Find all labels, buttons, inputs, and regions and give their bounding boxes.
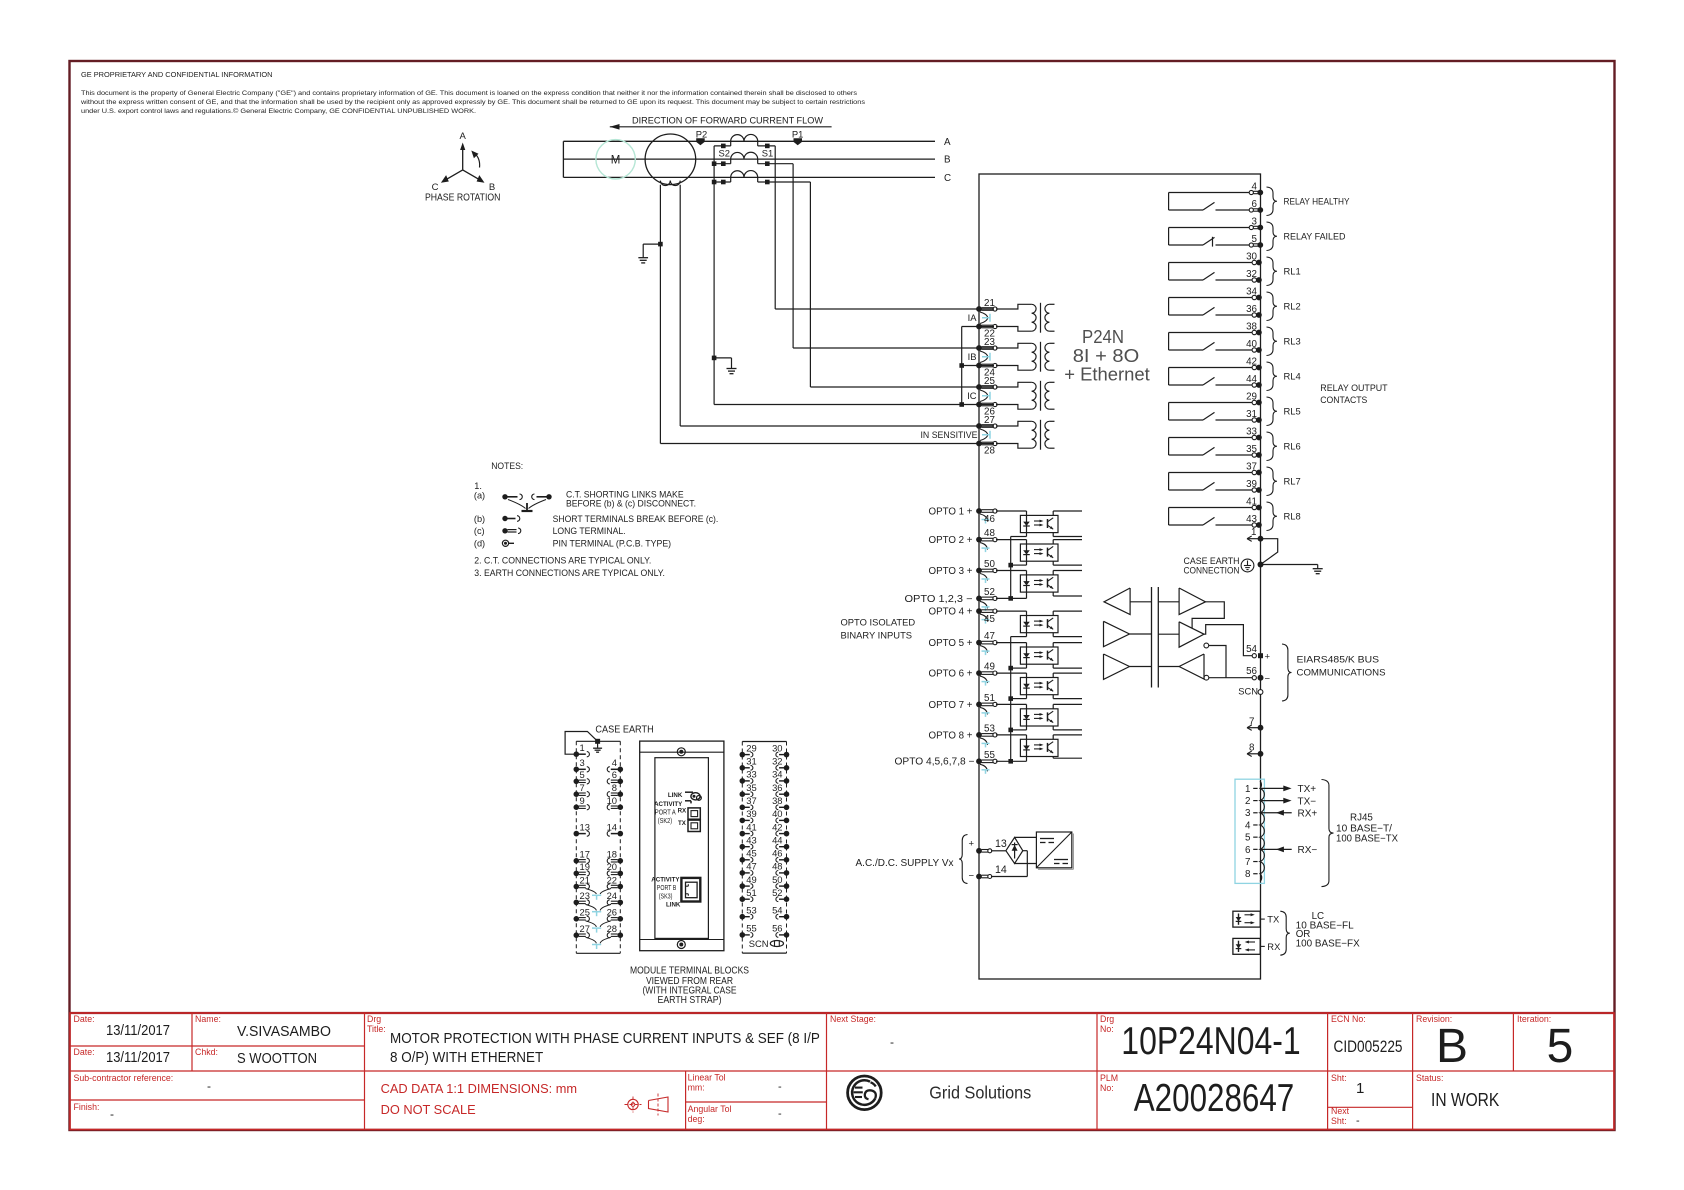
core balance CT (sensitive earth fault) bbox=[645, 134, 696, 186]
left block terminals 21/22 bbox=[574, 874, 624, 889]
svg-text:3. EARTH CONNECTIONS ARE TYPIC: 3. EARTH CONNECTIONS ARE TYPICAL ONLY. bbox=[474, 568, 665, 578]
svg-text:TX: TX bbox=[1267, 914, 1280, 925]
opto terminal 53 (OPTO 8 +) bbox=[929, 724, 998, 748]
terminal 8 bbox=[1247, 742, 1263, 756]
svg-text:S1: S1 bbox=[762, 148, 773, 159]
case earth strap bbox=[565, 732, 602, 755]
RJ45 connector box bbox=[1235, 779, 1264, 883]
port A indicator LEDs bbox=[685, 792, 701, 803]
CT input terminal 27 bbox=[976, 415, 997, 429]
svg-text:5: 5 bbox=[1547, 1020, 1574, 1073]
svg-text:P2: P2 bbox=[696, 129, 707, 140]
svg-text:under U.S. export control laws: under U.S. export control laws and regul… bbox=[81, 107, 476, 115]
svg-text:-: - bbox=[778, 1108, 782, 1120]
svg-text:39: 39 bbox=[1246, 479, 1257, 490]
svg-text:IN WORK: IN WORK bbox=[1431, 1090, 1499, 1110]
svg-text:+: + bbox=[969, 838, 975, 849]
svg-text:47: 47 bbox=[984, 631, 995, 642]
left block terminals 9/10 bbox=[574, 795, 624, 810]
svg-text:RL8: RL8 bbox=[1284, 511, 1301, 522]
input transformer T3 bbox=[996, 381, 1055, 411]
svg-text:Date:: Date: bbox=[74, 1047, 95, 1057]
svg-text:IA: IA bbox=[968, 312, 978, 323]
svg-text:C: C bbox=[432, 182, 439, 193]
svg-text:TX: TX bbox=[678, 820, 687, 827]
svg-text:mm:: mm: bbox=[688, 1083, 705, 1093]
svg-text:+: + bbox=[1265, 651, 1271, 662]
svg-text:V.SIVASAMBO: V.SIVASAMBO bbox=[237, 1024, 331, 1040]
busbar left tie bbox=[562, 141, 564, 177]
svg-text:51: 51 bbox=[746, 887, 756, 898]
CT input terminal 21 bbox=[976, 298, 997, 312]
svg-text:A20028647: A20028647 bbox=[1134, 1077, 1295, 1120]
right block terminals 39/40 bbox=[740, 808, 790, 823]
CT primary marker P2 bbox=[696, 129, 707, 146]
relay contact RL8 terminals 41/43 bbox=[1169, 496, 1301, 530]
svg-text:13: 13 bbox=[580, 821, 590, 832]
rectifier bridge bbox=[991, 837, 1036, 876]
svg-text:55: 55 bbox=[746, 923, 756, 934]
svg-text:6: 6 bbox=[612, 769, 617, 780]
svg-text:5: 5 bbox=[580, 769, 585, 780]
fibre TX port bbox=[1233, 911, 1280, 927]
RJ45 pin 4 bbox=[1245, 820, 1258, 831]
opto terminal 52 (OPTO 1,2,3 −) bbox=[905, 587, 998, 611]
CT input terminal 23 bbox=[976, 337, 997, 351]
input transformer T4 bbox=[996, 420, 1055, 450]
svg-text:Sht:: Sht: bbox=[1331, 1073, 1347, 1083]
svg-text:SCN: SCN bbox=[749, 938, 769, 949]
svg-text:NOTES:: NOTES: bbox=[491, 461, 523, 472]
svg-text:6: 6 bbox=[1245, 845, 1251, 856]
svg-text:13/11/2017: 13/11/2017 bbox=[106, 1023, 170, 1039]
right block terminals 41/42 bbox=[740, 821, 790, 836]
svg-text:8: 8 bbox=[612, 782, 617, 793]
left block shorting link 2 bbox=[586, 904, 612, 916]
right block terminals 45/46 bbox=[740, 848, 790, 863]
label S1 bbox=[762, 148, 773, 159]
input transformer T1 bbox=[996, 303, 1055, 333]
svg-text:OPTO ISOLATED: OPTO ISOLATED bbox=[841, 616, 916, 627]
RJ45 pin 5 bbox=[1245, 833, 1258, 844]
svg-text:(b): (b) bbox=[474, 514, 485, 524]
svg-text:ECN No:: ECN No: bbox=[1331, 1014, 1366, 1024]
svg-text:40: 40 bbox=[1246, 339, 1257, 350]
RJ45 pin 1 bbox=[1245, 784, 1316, 795]
svg-text:Date:: Date: bbox=[74, 1014, 95, 1024]
svg-text:B: B bbox=[489, 182, 495, 193]
svg-text:C: C bbox=[944, 173, 951, 184]
svg-text:7: 7 bbox=[1249, 716, 1254, 727]
right block terminals 47/48 bbox=[740, 861, 790, 876]
svg-text:RL1: RL1 bbox=[1284, 266, 1301, 277]
svg-text:40: 40 bbox=[772, 808, 782, 819]
port A ST connectors bbox=[688, 808, 700, 832]
svg-text:10: 10 bbox=[607, 795, 617, 806]
svg-text:36: 36 bbox=[772, 782, 782, 793]
svg-text:OPTO 6 +: OPTO 6 + bbox=[929, 669, 973, 680]
svg-text:19: 19 bbox=[580, 861, 590, 872]
svg-text:100 BASE−FX: 100 BASE−FX bbox=[1296, 938, 1360, 949]
svg-text:Grid Solutions: Grid Solutions bbox=[929, 1083, 1031, 1103]
optocoupler 7 bbox=[996, 704, 1082, 730]
svg-text:37: 37 bbox=[746, 795, 756, 806]
svg-text:27: 27 bbox=[984, 415, 995, 426]
svg-text:28: 28 bbox=[607, 923, 617, 934]
svg-text:(c): (c) bbox=[474, 526, 485, 536]
svg-text:3: 3 bbox=[1245, 808, 1251, 819]
svg-text:OPTO 7 +: OPTO 7 + bbox=[929, 700, 973, 711]
svg-text:-: - bbox=[1356, 1115, 1360, 1127]
note (d) symbol bbox=[474, 538, 671, 548]
svg-text:2: 2 bbox=[1245, 796, 1250, 807]
opto terminal 51 (OPTO 7 +) bbox=[929, 693, 998, 717]
CT input terminal 25 bbox=[976, 376, 997, 390]
svg-text:RX: RX bbox=[1267, 941, 1281, 952]
svg-text:18: 18 bbox=[607, 849, 617, 860]
buffer T3 bbox=[1104, 654, 1152, 679]
svg-text:RX: RX bbox=[678, 808, 687, 815]
svg-text:−: − bbox=[969, 871, 975, 882]
svg-text:CID005225: CID005225 bbox=[1334, 1038, 1403, 1056]
GE proprietary note bbox=[80, 70, 866, 115]
wire C S1 to 25 bbox=[810, 182, 994, 387]
wire A S1 to 21 bbox=[775, 146, 994, 309]
svg-text:CONNECTION: CONNECTION bbox=[1184, 564, 1240, 575]
port B labels bbox=[651, 877, 681, 909]
svg-text:14: 14 bbox=[607, 821, 617, 832]
svg-text:COMMUNICATIONS: COMMUNICATIONS bbox=[1297, 666, 1386, 677]
svg-text:23: 23 bbox=[984, 337, 995, 348]
svg-text:56: 56 bbox=[1246, 666, 1257, 677]
svg-text:1: 1 bbox=[1251, 527, 1256, 538]
optocoupler 8 bbox=[996, 735, 1082, 761]
svg-text:Angular Tol: Angular Tol bbox=[688, 1104, 732, 1114]
svg-text:IB: IB bbox=[968, 351, 977, 362]
LC brace and label bbox=[1280, 911, 1360, 955]
svg-text:14: 14 bbox=[995, 864, 1007, 876]
left block terminals 25/26 bbox=[574, 907, 624, 922]
left terminal block outline bbox=[576, 741, 620, 953]
svg-text:No:: No: bbox=[1100, 1083, 1114, 1093]
svg-text:29: 29 bbox=[1246, 391, 1257, 402]
svg-text:(d): (d) bbox=[474, 538, 485, 548]
left block terminals 1 bbox=[574, 742, 590, 757]
RJ45 pin 3 bbox=[1245, 808, 1317, 819]
svg-text:5: 5 bbox=[1245, 833, 1251, 844]
svg-text:35: 35 bbox=[1246, 444, 1257, 455]
opto isolated binary inputs label bbox=[841, 616, 916, 640]
svg-text:43: 43 bbox=[746, 835, 756, 846]
RJ45 pin 8 bbox=[1245, 869, 1258, 880]
CT earth on S2 bus bbox=[712, 356, 737, 374]
svg-text:TX+: TX+ bbox=[1298, 784, 1317, 795]
port B RJ45 jack bbox=[681, 878, 700, 902]
busbar phase B bbox=[563, 155, 951, 166]
svg-text:32: 32 bbox=[1246, 269, 1257, 280]
case earth connection bbox=[1184, 555, 1323, 576]
optocoupler 3 bbox=[996, 571, 1082, 599]
fibre RX port bbox=[1233, 938, 1281, 954]
svg-text:Sht:: Sht: bbox=[1331, 1116, 1347, 1126]
svg-text:50: 50 bbox=[772, 874, 782, 885]
motor CT wire left to 28 bbox=[660, 185, 994, 444]
svg-text:A: A bbox=[460, 131, 467, 142]
svg-text:9: 9 bbox=[580, 795, 585, 806]
svg-text:LONG TERMINAL.: LONG TERMINAL. bbox=[553, 526, 626, 536]
svg-text:41: 41 bbox=[1246, 496, 1257, 507]
svg-text:without the express written co: without the express written consent of G… bbox=[80, 99, 866, 106]
svg-text:26: 26 bbox=[607, 907, 617, 918]
svg-text:42: 42 bbox=[1246, 356, 1257, 367]
case earth label (terminal blocks) bbox=[595, 725, 653, 736]
svg-text:53: 53 bbox=[746, 905, 756, 916]
svg-text:3: 3 bbox=[580, 757, 585, 768]
svg-text:DIRECTION OF FORWARD CURREN: DIRECTION OF FORWARD CURRENT FLOW bbox=[632, 115, 824, 126]
svg-text:OPTO 1 +: OPTO 1 + bbox=[929, 506, 973, 517]
svg-text:24: 24 bbox=[607, 890, 617, 901]
svg-text:RELAY FAILED: RELAY FAILED bbox=[1284, 231, 1346, 242]
shorting link IN SENSITIVE bbox=[921, 429, 991, 441]
svg-text:M: M bbox=[611, 155, 621, 167]
right block terminals 31/32 bbox=[740, 756, 790, 771]
direction of forward current flow arrow bbox=[610, 115, 832, 129]
right block terminals 55/56 bbox=[740, 923, 790, 938]
svg-text:44: 44 bbox=[1246, 374, 1257, 385]
svg-text:CONTACTS: CONTACTS bbox=[1320, 394, 1367, 405]
buffer T2 (transmit) bbox=[1104, 621, 1152, 646]
RS485 terminal 54 bbox=[1246, 644, 1270, 663]
left block terminals 19/20 bbox=[574, 861, 624, 876]
optocoupler 4 bbox=[996, 611, 1082, 637]
opto terminal 50 (OPTO 3 +) bbox=[929, 559, 998, 583]
relay contact RELAY HEALTHY terminals 4/6 bbox=[1169, 181, 1351, 215]
svg-text:OPTO 3 +: OPTO 3 + bbox=[929, 566, 973, 577]
right block terminals 29/30 bbox=[740, 742, 790, 757]
svg-text:22: 22 bbox=[607, 874, 617, 885]
svg-text:BINARY INPUTS: BINARY INPUTS bbox=[841, 629, 913, 640]
note 2 bbox=[474, 555, 651, 565]
terminal 1 bbox=[1247, 527, 1278, 565]
busbar phase A bbox=[563, 137, 951, 148]
svg-text:−: − bbox=[1265, 673, 1271, 684]
note 1 bbox=[474, 481, 482, 491]
left block shorting link 4 bbox=[586, 937, 612, 949]
opto terminal 49 (OPTO 6 +) bbox=[929, 662, 998, 686]
svg-text:RL6: RL6 bbox=[1284, 441, 1301, 452]
right block terminals 51/52 bbox=[740, 887, 790, 902]
svg-text:MOTOR PROTECTION WITH PHASE CU: MOTOR PROTECTION WITH PHASE CURRENT INPU… bbox=[390, 1031, 820, 1047]
svg-text:38: 38 bbox=[1246, 321, 1257, 332]
left block terminals 13/14 bbox=[574, 821, 624, 836]
left block terminals 23/24 bbox=[574, 890, 624, 905]
relay contact RL3 terminals 38/40 bbox=[1169, 321, 1301, 355]
note (a) symbol bbox=[474, 490, 696, 511]
svg-text:56: 56 bbox=[772, 923, 782, 934]
right block terminals 33/34 bbox=[740, 769, 790, 784]
svg-text:(SK3): (SK3) bbox=[659, 894, 673, 901]
note (b) symbol bbox=[474, 514, 718, 524]
opto terminal 45 (OPTO 4 +) bbox=[929, 607, 998, 625]
svg-text:RX+: RX+ bbox=[1298, 809, 1318, 820]
svg-text:Name:: Name: bbox=[195, 1014, 221, 1024]
relay contact RL7 terminals 37/39 bbox=[1169, 461, 1301, 495]
svg-text:25: 25 bbox=[580, 907, 590, 918]
right block terminals 43/44 bbox=[740, 835, 790, 850]
svg-text:Next Stage:: Next Stage: bbox=[830, 1014, 876, 1024]
svg-text:Title:: Title: bbox=[367, 1024, 386, 1034]
svg-text:BEFORE (b) & (c) DISCONNECT.: BEFORE (b) & (c) DISCONNECT. bbox=[566, 499, 696, 509]
svg-text:54: 54 bbox=[772, 905, 782, 916]
wire B S1 to 23 bbox=[793, 164, 994, 348]
CT phase C bbox=[712, 171, 811, 185]
left block shorting link 3 bbox=[586, 921, 612, 933]
svg-text:7: 7 bbox=[1245, 857, 1250, 868]
svg-text:Chkd:: Chkd: bbox=[195, 1047, 218, 1057]
svg-text:46: 46 bbox=[772, 848, 782, 859]
svg-text:RX−: RX− bbox=[1298, 845, 1318, 856]
opto common rail group 1 bbox=[1008, 537, 1013, 601]
input transformer T2 bbox=[996, 342, 1055, 372]
svg-text:S WOOTTON: S WOOTTON bbox=[237, 1051, 317, 1067]
relay contact RELAY FAILED terminals 3/5 bbox=[1169, 216, 1346, 250]
shorting link IC bbox=[967, 390, 990, 402]
optocoupler 1 bbox=[996, 511, 1082, 537]
svg-text:34: 34 bbox=[772, 769, 782, 780]
svg-text:45: 45 bbox=[746, 848, 756, 859]
svg-text:100 BASE−TX: 100 BASE−TX bbox=[1336, 833, 1398, 844]
svg-text:46: 46 bbox=[984, 514, 995, 525]
optocoupler 5 bbox=[996, 643, 1082, 669]
svg-text:35: 35 bbox=[746, 782, 756, 793]
CT input terminal 24 bbox=[976, 363, 997, 379]
svg-text:25: 25 bbox=[984, 376, 995, 387]
svg-text:-: - bbox=[207, 1079, 211, 1093]
svg-text:17: 17 bbox=[580, 849, 590, 860]
svg-text:SHORT TERMINALS BREAK BEFORE (: SHORT TERMINALS BREAK BEFORE (c). bbox=[553, 514, 719, 524]
comms module rear panel bbox=[640, 741, 724, 951]
svg-text:Drg: Drg bbox=[367, 1014, 381, 1024]
svg-text:A: A bbox=[944, 137, 951, 148]
svg-text:8: 8 bbox=[1249, 742, 1255, 753]
svg-text:CAD DATA 1:1 DIMENSIONS: mm: CAD DATA 1:1 DIMENSIONS: mm bbox=[381, 1081, 577, 1096]
motor CT earth bbox=[638, 242, 662, 263]
relay contact RL6 terminals 33/35 bbox=[1169, 426, 1301, 460]
relay P24N case outline bbox=[979, 174, 1261, 979]
svg-text:13: 13 bbox=[995, 838, 1007, 850]
left block terminals 3/4 bbox=[574, 757, 624, 772]
svg-text:-: - bbox=[110, 1107, 114, 1121]
svg-text:1: 1 bbox=[580, 742, 585, 753]
motor CT wire right to 27 bbox=[680, 185, 994, 426]
SCN terminal bbox=[1238, 685, 1263, 696]
relay contact RL1 terminals 30/32 bbox=[1169, 251, 1301, 285]
svg-text:27: 27 bbox=[580, 923, 590, 934]
svg-text:RELAY HEALTHY: RELAY HEALTHY bbox=[1284, 196, 1351, 207]
projection symbol bbox=[625, 1094, 669, 1116]
svg-text:RJ45: RJ45 bbox=[1350, 812, 1373, 823]
svg-text:4: 4 bbox=[1245, 820, 1251, 831]
shorting link IA bbox=[968, 312, 990, 324]
busbar phase C bbox=[563, 173, 951, 184]
svg-text:52: 52 bbox=[984, 587, 995, 598]
wire opto minus 55 bbox=[996, 760, 1027, 762]
svg-text:41: 41 bbox=[746, 821, 756, 832]
svg-text:52: 52 bbox=[772, 887, 782, 898]
svg-text:GE PROPRIETARY AND CONFIDENTIA: GE PROPRIETARY AND CONFIDENTIAL INFORMAT… bbox=[81, 70, 273, 79]
svg-text:LINK: LINK bbox=[666, 901, 681, 908]
svg-text:PLM: PLM bbox=[1100, 1073, 1118, 1083]
svg-text:29: 29 bbox=[746, 742, 756, 753]
receiver R3 bbox=[1158, 654, 1252, 680]
wire opto minus 52 bbox=[996, 597, 1027, 599]
svg-text:IN SENSITIVE: IN SENSITIVE bbox=[921, 429, 978, 440]
svg-text:RL7: RL7 bbox=[1284, 476, 1301, 487]
CT phase B bbox=[712, 152, 793, 166]
svg-text:48: 48 bbox=[984, 528, 995, 539]
svg-text:This document is the property: This document is the property of General… bbox=[81, 90, 858, 97]
svg-text:53: 53 bbox=[984, 724, 995, 735]
svg-text:DO NOT SCALE: DO NOT SCALE bbox=[381, 1102, 476, 1117]
svg-text:PORT B: PORT B bbox=[657, 883, 677, 892]
svg-text:EIARS485/K BUS: EIARS485/K BUS bbox=[1297, 653, 1380, 664]
svg-text:31: 31 bbox=[746, 756, 756, 767]
right block terminals 35/36 bbox=[740, 782, 790, 797]
title block texts bbox=[74, 1014, 1574, 1127]
svg-text:20: 20 bbox=[607, 861, 617, 872]
svg-text:39: 39 bbox=[746, 808, 756, 819]
GE logo bbox=[848, 1076, 882, 1110]
svg-text:2. C.T. CONNECTIONS ARE TYPICA: 2. C.T. CONNECTIONS ARE TYPICAL ONLY. bbox=[474, 555, 651, 565]
jumper 22-24-26 bbox=[959, 327, 994, 405]
svg-text:30: 30 bbox=[1246, 251, 1257, 262]
svg-text:34: 34 bbox=[1246, 286, 1257, 297]
relay contact RL2 terminals 34/36 bbox=[1169, 286, 1301, 320]
svg-text:5: 5 bbox=[1252, 234, 1258, 245]
svg-text:42: 42 bbox=[772, 821, 782, 832]
CT input terminal 26 bbox=[976, 402, 997, 418]
svg-text:54: 54 bbox=[1246, 644, 1257, 655]
svg-text:55: 55 bbox=[984, 750, 995, 761]
svg-text:B: B bbox=[944, 155, 951, 166]
svg-text:10P24N04-1: 10P24N04-1 bbox=[1121, 1020, 1300, 1063]
svg-text:8: 8 bbox=[1245, 869, 1251, 880]
svg-text:33: 33 bbox=[1246, 426, 1257, 437]
svg-text:Next: Next bbox=[1331, 1106, 1350, 1116]
svg-text:48: 48 bbox=[772, 861, 782, 872]
svg-text:32: 32 bbox=[772, 756, 782, 767]
SCN terminal (block) bbox=[749, 938, 784, 949]
svg-text:PORT A: PORT A bbox=[655, 807, 676, 816]
svg-text:OPTO 2 +: OPTO 2 + bbox=[929, 535, 973, 546]
relay output contacts label bbox=[1320, 382, 1388, 405]
supply terminal 13 bbox=[976, 838, 1007, 854]
svg-text:49: 49 bbox=[984, 662, 995, 673]
right block terminals 53/54 bbox=[740, 905, 790, 920]
svg-text:36: 36 bbox=[1246, 304, 1257, 315]
svg-text:RL2: RL2 bbox=[1284, 301, 1301, 312]
CT primary marker P1 bbox=[792, 129, 803, 146]
svg-text:S2: S2 bbox=[719, 148, 730, 159]
svg-text:P24N: P24N bbox=[1082, 326, 1124, 347]
CT phase A bbox=[714, 134, 775, 148]
CT input terminal 28 bbox=[976, 441, 997, 457]
RJ45 pin 6 bbox=[1245, 845, 1317, 856]
left block terminals 27/28 bbox=[574, 923, 624, 938]
CT input terminal 22 bbox=[976, 324, 997, 340]
svg-text:deg:: deg: bbox=[688, 1114, 705, 1124]
svg-text:RELAY OUTPUT: RELAY OUTPUT bbox=[1320, 382, 1388, 393]
